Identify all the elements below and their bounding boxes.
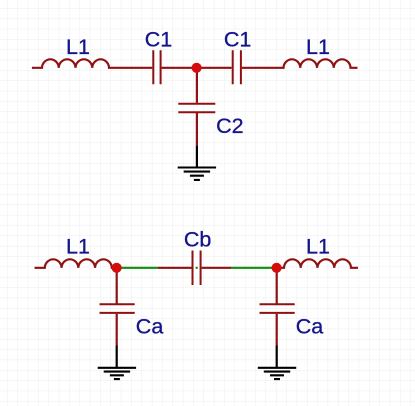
wire (red lead into Cb) [158, 267, 192, 269]
wire (red below Ca right) [276, 314, 278, 346]
capacitor C2 [178, 104, 215, 112]
ground (top circuit) [178, 168, 216, 180]
node B (bottom-right junction) [272, 263, 282, 273]
capacitor Ca (right) [260, 304, 295, 313]
svg-text:L1: L1 [66, 35, 90, 59]
inductor L1 (bottom-right) [277, 259, 358, 267]
inductor L1 (bottom-left) [35, 259, 117, 267]
svg-text:C2: C2 [216, 114, 243, 138]
wire (node B down to Ca) [276, 270, 278, 304]
capacitor C1 (top-right) [233, 50, 241, 84]
inductor L1 (top-right) [242, 59, 358, 67]
capacitor C1 (top-left) [153, 50, 160, 84]
wire (black part to ground) [196, 146, 198, 168]
wire (green stub inside Cb gap) [196, 267, 198, 269]
wire (red below Ca left) [116, 314, 118, 346]
svg-text:Ca: Ca [136, 314, 164, 338]
wire (black to ground, right) [276, 346, 278, 368]
svg-text:C1: C1 [224, 28, 251, 52]
wire (node to C2) [196, 70, 198, 103]
wire (node A down to Ca) [116, 270, 118, 304]
wire (C2 to ground, red part) [196, 113, 198, 146]
wire (black to ground, left) [116, 346, 118, 368]
ground (bottom-left) [98, 368, 136, 379]
svg-text:L1: L1 [66, 235, 90, 259]
wire [197, 67, 232, 69]
wire [162, 67, 197, 69]
inductor L1 (top-left) [32, 59, 152, 67]
svg-text:L1: L1 [306, 235, 330, 259]
svg-text:C1: C1 [145, 28, 172, 52]
node A (bottom-left junction) [112, 263, 122, 273]
capacitor Ca (left) [100, 304, 135, 313]
capacitor Cb [193, 251, 201, 286]
wire (red lead out of Cb) [202, 267, 232, 269]
svg-text:Ca: Ca [296, 314, 324, 338]
svg-text:Cb: Cb [184, 228, 212, 252]
ground (bottom-right) [258, 368, 296, 379]
wire (green net, left) [121, 267, 158, 269]
svg-text:L1: L1 [306, 35, 330, 59]
wire (green net, right) [231, 267, 272, 269]
node junction (top circuit) [192, 63, 202, 73]
